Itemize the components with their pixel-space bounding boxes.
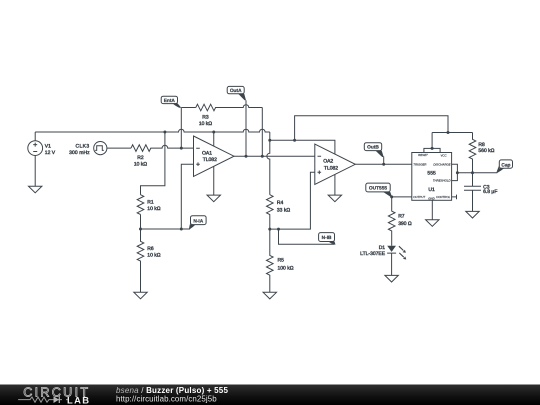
svg-text:R5: R5 (278, 258, 285, 264)
svg-text:V1: V1 (45, 144, 51, 150)
ground below V1 (29, 186, 42, 193)
svg-text:R7: R7 (398, 213, 405, 219)
ground below D1 (385, 275, 398, 282)
node dot R8/C3 (471, 171, 474, 174)
node dot bracket middle (456, 171, 459, 174)
svg-text:DISCHARGE: DISCHARGE (433, 162, 450, 166)
flag OUT555 (366, 183, 392, 197)
wire CONTROL stub with NC tick (452, 195, 457, 200)
12V rail wire (hops at 181.3, 246, 262.3) (35, 129, 270, 132)
op-amp U1 OA1 (194, 136, 235, 176)
ground below OA2 (328, 195, 341, 202)
resistor R1 (137, 195, 161, 215)
svg-text:THRESHOLD: THRESHOLD (433, 179, 451, 183)
node dot 555 supply (447, 131, 450, 134)
node dot R4/R5/N-IB (268, 228, 271, 231)
resistor R3 (196, 104, 216, 127)
wire RESET drop (431, 133, 433, 149)
svg-text:10 kΩ: 10 kΩ (147, 206, 160, 212)
wire V1 top to rail (34, 132, 36, 141)
svg-text:10 kΩ: 10 kΩ (134, 161, 147, 167)
wire EntA vertical (180, 108, 182, 149)
flag OutA (227, 86, 246, 100)
wire R1 bottom to node (140, 215, 142, 230)
wire divider drop from rail (141, 132, 165, 195)
svg-text:OutA: OutA (230, 88, 242, 94)
svg-text:R3: R3 (202, 114, 209, 120)
svg-text:10 kΩ: 10 kΩ (199, 121, 212, 127)
flag N-IA (189, 216, 206, 229)
svg-text:390 Ω: 390 Ω (398, 221, 412, 227)
wire Cap net horizontal (457, 172, 497, 174)
wire N-IB node horizontal to OA2 plus input (270, 172, 315, 229)
node dot N-IA vertical junction (180, 228, 183, 231)
wire OutA vertical to output (245, 100, 247, 156)
svg-text:OUT555: OUT555 (369, 186, 387, 192)
svg-text:6.8 μF: 6.8 μF (483, 189, 497, 195)
node dot RESET pin (431, 147, 434, 150)
wire DISCHARGE/THRESHOLD bracket (452, 164, 458, 180)
wire R3 right vertical to output (261, 108, 263, 157)
wire node A horizontal (N-IA net) (141, 228, 191, 230)
wire OA2 output to 555 TRIGGER (355, 163, 412, 165)
ground below C3 (466, 211, 479, 218)
ground below R6 (134, 292, 147, 299)
flag N-IB (319, 233, 336, 245)
svg-text:OA2: OA2 (323, 159, 333, 165)
ground below 555 (426, 220, 439, 227)
svg-text:TL082: TL082 (324, 165, 338, 171)
resistor R2 (131, 145, 151, 168)
wire 555 top supply horizontal (432, 132, 472, 134)
wire R2 to OA1 inverting input (hop at x=164.9) (150, 145, 193, 148)
svg-text:R4: R4 (277, 200, 284, 206)
LED D1 (360, 245, 406, 276)
resistor R8 (469, 133, 494, 173)
node dot output/R3 (261, 155, 264, 158)
svg-text:EntA: EntA (164, 98, 176, 104)
flag EntA (161, 96, 181, 108)
resistor R7 (388, 197, 412, 246)
wire R3 feedback horizontal (181, 105, 262, 108)
node dot R2/EntA junction (180, 147, 183, 150)
resistor R4 (266, 195, 290, 229)
svg-text:OUTPUT: OUTPUT (413, 195, 425, 199)
node dot N-IB stub (277, 228, 280, 231)
svg-text:10 kΩ: 10 kΩ (147, 252, 160, 258)
wire 555 GND stem (431, 200, 433, 219)
wire rail corner down to R4 (hop over output) (267, 132, 270, 195)
node dot rail/R1-divider (163, 131, 166, 134)
svg-text:D1: D1 (379, 245, 386, 251)
wire 12V branch to OA2 V+ (270, 140, 335, 154)
svg-text:GND: GND (428, 196, 434, 200)
node dot OutB (382, 163, 385, 166)
ground below R5 (263, 292, 276, 299)
footer title text (116, 386, 228, 403)
svg-text:12 V: 12 V (45, 150, 56, 156)
svg-text:OA1: OA1 (202, 151, 212, 157)
svg-text:OutB: OutB (367, 145, 379, 151)
svg-text:R8: R8 (478, 142, 485, 148)
svg-text:R1: R1 (147, 199, 154, 205)
node dot R1/R6 junction (139, 228, 142, 231)
node dot rail/OA1 V+ (212, 131, 215, 134)
wire OUTPUT pin to R7 (392, 196, 412, 198)
wire OA1 V- stem (213, 166, 215, 195)
wire N-IB flag stub (279, 229, 335, 244)
flag OutB (364, 143, 383, 165)
node dot 12V to 555 branch (293, 139, 296, 142)
svg-text:LTL-307EE: LTL-307EE (360, 251, 386, 257)
flag Cap (497, 160, 513, 173)
svg-text:RESET: RESET (418, 153, 428, 157)
svg-text:R2: R2 (137, 155, 144, 161)
svg-text:560 kΩ: 560 kΩ (478, 148, 494, 154)
wire OA2 V- stem (334, 175, 336, 196)
op-amp U2 OA2 (315, 144, 356, 184)
svg-text:TL082: TL082 (203, 157, 217, 163)
svg-text:CLK3: CLK3 (75, 144, 89, 150)
resistor R6 (137, 229, 161, 292)
svg-text:LAB: LAB (67, 394, 90, 405)
wire OA1 V+ stem (213, 132, 215, 146)
wire 12V feed to 555 (295, 116, 448, 141)
wire V1 bottom (34, 156, 36, 187)
svg-text:N-IB: N-IB (322, 235, 332, 241)
svg-text:N-IA: N-IA (193, 218, 203, 224)
svg-text:VCC: VCC (440, 153, 447, 157)
svg-text:http://circuitlab.com/cn25j5b: http://circuitlab.com/cn25j5b (116, 394, 217, 403)
svg-text:U1: U1 (428, 187, 435, 193)
wire CLK3 to R2 (107, 147, 131, 149)
wire OA1 output to OA2 inverting input (234, 155, 315, 157)
svg-text:R6: R6 (147, 246, 154, 252)
node dot 12V branch (268, 139, 271, 142)
svg-text:300 mHz: 300 mHz (69, 150, 90, 156)
svg-text:33 kΩ: 33 kΩ (277, 207, 290, 213)
svg-text:Cap: Cap (501, 162, 510, 168)
node dot OUT555 (390, 195, 393, 198)
svg-text:100 kΩ: 100 kΩ (278, 266, 294, 272)
CircuitLab logo (18, 385, 90, 405)
footer bar (0, 385, 540, 405)
svg-text:TRIGGER: TRIGGER (413, 162, 426, 166)
svg-text:555: 555 (427, 170, 436, 176)
node dot output/OutA (245, 155, 248, 158)
IC U1 555 timer body (412, 148, 452, 200)
resistor R5 (266, 229, 293, 292)
svg-text:CONTROL: CONTROL (436, 195, 451, 199)
ground below OA1 (207, 195, 220, 202)
voltage source V1 (28, 141, 56, 156)
clock source CLK3 (69, 142, 107, 156)
capacitor C3 (464, 173, 497, 212)
wire to OA1 non-inverting input (181, 164, 193, 229)
